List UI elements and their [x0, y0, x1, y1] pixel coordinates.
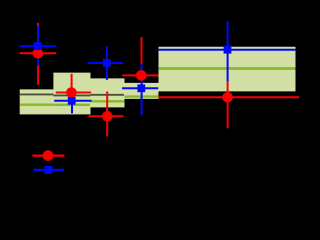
red errorbar h bin4 [122, 74, 158, 76]
yellowgreen central line bin3 [90, 100, 125, 102]
blue errorbar v bin5 [227, 21, 229, 81]
blue errorbar h bin1 [20, 45, 56, 47]
blue errorbar v bin3 [106, 46, 108, 80]
blue errorbar h bin5 [159, 49, 296, 51]
blue errorbar h bin2 [54, 100, 91, 102]
blue errorbar v bin4 [141, 64, 143, 115]
red errorbar v bin3 [106, 92, 108, 137]
blue marker bin5 [224, 46, 232, 54]
blue errorbar h bin3 [88, 62, 123, 64]
olive prediction line bin3 [91, 94, 125, 96]
red marker bin2 [66, 87, 77, 98]
legend red errorbar line [32, 155, 64, 157]
red marker bin1 [33, 48, 44, 59]
red errorbar h bin3 [88, 115, 123, 117]
blue marker bin3 [103, 59, 111, 67]
yellowgreen central line bin2 [53, 104, 89, 106]
red errorbar h bin5 [159, 96, 300, 98]
red marker bin5 [222, 92, 233, 103]
red marker bin3 [102, 111, 113, 122]
legend blue errorbar line [33, 169, 64, 171]
blue errorbar h bin4 [122, 87, 158, 89]
red errorbar h bin1 [20, 52, 57, 54]
yellowgreen central line bin1 [20, 103, 54, 105]
blue marker bin4 [137, 84, 145, 92]
olive prediction line bin2 [53, 94, 90, 96]
red errorbar v bin5 [227, 80, 229, 129]
blue errorbar v bin2 [71, 89, 73, 114]
legend red marker [43, 150, 54, 161]
yellowgreen central line bin5 [159, 67, 296, 70]
red errorbar v bin2 [71, 74, 73, 98]
red errorbar h bin2 [56, 92, 91, 94]
blue errorbar v bin1 [37, 26, 39, 66]
yellowgreen central line bin4 [125, 95, 159, 97]
red marker bin4 [136, 70, 147, 81]
blue marker bin1 [34, 42, 42, 50]
olive prediction line bin1 [20, 93, 54, 95]
red errorbar v bin4 [141, 37, 143, 81]
theory band step polygon bins1-5 [20, 47, 296, 115]
red errorbar v bin1 [37, 23, 39, 85]
legend blue marker [45, 166, 53, 174]
blue marker bin2 [68, 97, 76, 105]
